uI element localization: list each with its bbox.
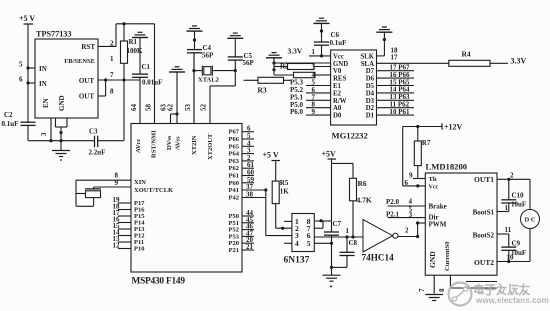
wire GND pin down <box>60 127 62 151</box>
mcu U MSP430F149 body <box>131 124 242 273</box>
svg-text:RST/NMI: RST/NMI <box>151 130 158 158</box>
ground above C4 <box>187 30 203 32</box>
svg-text:FB/SENSE: FB/SENSE <box>64 58 95 65</box>
wire P63 pin2 stub <box>242 160 254 162</box>
wire SLA pin17 to R4 <box>377 62 449 64</box>
wire P5.2 to pin6 <box>306 92 331 94</box>
wire 3.3V output rail <box>98 79 140 81</box>
capacitor C5 56P <box>234 38 236 57</box>
svg-text:MSP430 F149: MSP430 F149 <box>132 277 186 287</box>
wire P5.3 to pin5 <box>306 85 331 87</box>
ground optocoupler <box>323 274 341 276</box>
svg-text:10 P61: 10 P61 <box>390 108 411 116</box>
svg-text:BootS2: BootS2 <box>473 232 495 240</box>
svg-text:LMD18200: LMD18200 <box>426 162 468 172</box>
optocoupler U 6N137 body <box>292 214 314 252</box>
wire P67 pin6 stub <box>242 131 254 133</box>
wire P16 pin18 stub <box>118 209 131 211</box>
wire RST/NMI pin58 <box>154 24 156 124</box>
wire P10 pin12 stub <box>118 248 131 250</box>
svg-text:8: 8 <box>438 288 446 292</box>
svg-text:4: 4 <box>409 198 413 206</box>
wire P6.0 to pin9 <box>306 114 331 116</box>
svg-text:TPS77133: TPS77133 <box>36 30 72 39</box>
svg-text:www.elecfans.com: www.elecfans.com <box>475 296 549 305</box>
svg-text:5: 5 <box>307 239 311 248</box>
svg-text:RES: RES <box>333 76 346 83</box>
capacitor C7 <box>324 231 339 233</box>
wire P52 pin46 stub <box>242 229 254 231</box>
regulator U TPS77133 body <box>35 39 98 118</box>
wire P50 pin44 stub <box>242 215 254 217</box>
ground DVss AVss <box>169 71 185 73</box>
svg-text:+5 V: +5 V <box>263 151 279 160</box>
wire opto pin8 pin7 tie <box>314 220 323 222</box>
svg-text:C10: C10 <box>512 192 525 200</box>
crystal XTAL2 <box>194 70 202 72</box>
svg-text:P2.1: P2.1 <box>386 210 400 218</box>
svg-text:1: 1 <box>110 55 114 63</box>
svg-text:74HC14: 74HC14 <box>362 253 395 263</box>
node +12V <box>403 126 442 128</box>
capacitor C2 <box>21 121 36 123</box>
svg-text:R4: R4 <box>462 50 471 59</box>
wire +5V rail down left side <box>27 24 29 122</box>
svg-text:DVss: DVss <box>166 135 173 150</box>
wire crystal right to C5 <box>212 70 235 72</box>
svg-text:XT2OUT: XT2OUT <box>207 133 214 160</box>
svg-text:SLA: SLA <box>361 61 374 68</box>
svg-text:52: 52 <box>200 104 208 112</box>
svg-text:D6: D6 <box>366 76 375 83</box>
svg-text:XOUT/TCLK: XOUT/TCLK <box>134 187 173 194</box>
svg-text:R/W: R/W <box>333 98 347 105</box>
svg-text:56P: 56P <box>243 59 255 67</box>
wire P62 pin61 stub <box>242 167 254 169</box>
wire P2.1 to Dir pin3 <box>388 217 426 219</box>
svg-text:+5 V: +5 V <box>19 14 35 23</box>
svg-text:1: 1 <box>346 227 350 235</box>
wire P5.0 to pin8 <box>306 107 331 109</box>
ground LMD18200 <box>425 294 443 296</box>
svg-text:64: 64 <box>130 104 138 112</box>
svg-text:38: 38 <box>246 191 254 199</box>
svg-text:C3: C3 <box>89 128 98 136</box>
ground above C5 <box>227 37 243 39</box>
wire BootS1 pin1 <box>497 211 509 213</box>
wire OUT pin8 join <box>98 95 106 97</box>
svg-text:17: 17 <box>391 53 399 61</box>
wire XT2OUT pin52 <box>209 86 211 124</box>
svg-text:9: 9 <box>115 179 119 187</box>
wire opto pin6 output to inverter <box>314 236 363 238</box>
svg-text:AVcc: AVcc <box>135 139 142 153</box>
svg-text:IN: IN <box>39 65 47 73</box>
svg-text:R5: R5 <box>280 179 289 187</box>
wire AVss pin62 <box>176 72 178 124</box>
svg-text:D0: D0 <box>333 113 342 120</box>
svg-text:R3: R3 <box>258 86 267 95</box>
svg-text:6: 6 <box>19 76 23 84</box>
svg-text:D1: D1 <box>366 113 375 120</box>
svg-text:P60: P60 <box>229 180 239 187</box>
watermark chinese characters <box>475 284 529 295</box>
svg-text:6N137: 6N137 <box>284 256 310 266</box>
wire OUT2 pin10 to motor <box>497 261 530 263</box>
svg-text:D3: D3 <box>366 98 375 105</box>
svg-text:P41: P41 <box>229 187 239 194</box>
svg-text:C8: C8 <box>349 239 358 247</box>
wire XIN pin8 <box>76 179 131 181</box>
svg-text:OUT2: OUT2 <box>474 258 494 267</box>
svg-text:P21: P21 <box>229 247 239 254</box>
wire P20 pin20 stub <box>242 242 254 244</box>
svg-text:Brake: Brake <box>429 203 447 211</box>
svg-text:XIN: XIN <box>134 179 146 186</box>
svg-text:P2.0: P2.0 <box>386 198 400 206</box>
resistor R7 thermal pullup <box>417 127 419 142</box>
wire P14 pin16 stub <box>118 222 131 224</box>
resistor R6 4.7K <box>352 163 354 178</box>
svg-text:3: 3 <box>40 132 48 136</box>
wire C7 to ground <box>331 235 333 275</box>
wire C4 to XT2IN <box>193 53 195 124</box>
inverter U 74HC14 <box>363 220 393 253</box>
svg-text:2: 2 <box>405 227 409 235</box>
svg-text:10uF: 10uF <box>511 201 526 209</box>
svg-text:3: 3 <box>409 211 413 219</box>
capacitor C8 <box>346 237 348 252</box>
svg-text:PWM: PWM <box>429 221 447 229</box>
svg-text:6: 6 <box>405 179 409 187</box>
wire LCD data D2 net P62 <box>377 107 415 109</box>
lcd U MG12232 body <box>331 50 377 125</box>
capacitor C9 bootstrap <box>508 234 510 247</box>
wire P53 pin47 stub <box>242 235 254 237</box>
ground top of C1 <box>132 37 148 39</box>
resistor R3 <box>244 79 259 81</box>
capacitor C1 0.01uF <box>139 38 141 75</box>
watermark logo circle <box>449 283 472 306</box>
svg-text:D4: D4 <box>366 90 375 97</box>
svg-text:OUT1: OUT1 <box>474 175 494 184</box>
wire LCD data D1 net P61 <box>377 114 415 116</box>
wire RST to reset rail <box>98 45 116 47</box>
svg-text:58: 58 <box>145 104 153 112</box>
wire Current pin8 sense <box>449 275 451 288</box>
wire P65 pin4 stub <box>242 145 254 147</box>
GND pin tab <box>55 118 57 127</box>
svg-text:D5: D5 <box>366 83 375 90</box>
svg-text:V0: V0 <box>333 68 342 75</box>
wire OUT1 pin2 to motor <box>497 178 530 180</box>
svg-text:7: 7 <box>418 288 426 292</box>
wire P17 pin19 stub <box>118 202 131 204</box>
wire P41 pin37 to optocoupler <box>242 189 266 191</box>
svg-text:P6.0: P6.0 <box>290 108 304 116</box>
wire inverter output to PWM <box>398 236 418 238</box>
svg-text:P65: P65 <box>229 143 240 150</box>
wire IN pin6 stub <box>28 82 35 84</box>
wire opto pin4 stub <box>284 242 292 244</box>
wire XT2IN pin53 <box>193 52 195 123</box>
wire Th pin9 <box>413 178 425 180</box>
wire P60 pin59 stub <box>242 182 254 184</box>
svg-text:D7: D7 <box>366 68 375 75</box>
svg-text:3.3V: 3.3V <box>288 47 303 56</box>
wire P61 pin60 stub <box>242 175 254 177</box>
svg-text:RST: RST <box>81 43 95 51</box>
svg-text:XTAL2: XTAL2 <box>198 77 219 84</box>
svg-text:OUT: OUT <box>79 77 95 85</box>
wire P5.1 to pin7 <box>306 99 331 101</box>
wire LCD data D7 net P67 <box>377 70 415 72</box>
ground above C6 <box>314 22 330 24</box>
wire crystal loop <box>93 187 95 189</box>
resistor R4 backlight <box>449 60 490 66</box>
wire +5V rail to C7 <box>331 159 333 232</box>
wire LCD data D4 net P64 <box>377 92 415 94</box>
svg-text:R1: R1 <box>129 38 138 46</box>
wire XOUT pin9 <box>94 186 131 188</box>
wire P42 pin38 stub <box>242 197 266 199</box>
svg-text:2.2uF: 2.2uF <box>89 149 106 157</box>
svg-text:+5V: +5V <box>322 150 337 159</box>
wire P66 pin5 stub <box>242 138 254 140</box>
svg-text:C7: C7 <box>333 220 342 228</box>
wire SLK pin18 to ground <box>377 55 385 57</box>
wire AVcc pin64 <box>139 80 141 124</box>
wire P21 pin21 stub <box>242 249 254 251</box>
wire P15 pin17 stub <box>118 215 131 217</box>
svg-text:P10: P10 <box>134 246 144 253</box>
svg-text:1K: 1K <box>280 188 290 196</box>
wire LCD data D6 net P66 <box>377 77 415 79</box>
svg-text:Vcc: Vcc <box>333 53 344 60</box>
svg-text:P61: P61 <box>229 173 239 180</box>
svg-text:P67: P67 <box>229 129 240 136</box>
resistor R5 1K <box>275 161 277 182</box>
svg-text:R7: R7 <box>422 139 431 147</box>
svg-text:4.7K: 4.7K <box>357 196 372 205</box>
svg-text:E2: E2 <box>333 90 342 97</box>
svg-text:IN: IN <box>39 80 47 88</box>
svg-text:C1: C1 <box>142 63 151 71</box>
svg-text:C9: C9 <box>512 240 521 248</box>
svg-text:D C: D C <box>524 217 535 224</box>
svg-text:0.1uF: 0.1uF <box>2 120 19 128</box>
svg-text:0.01uF: 0.01uF <box>142 79 162 87</box>
svg-text:1: 1 <box>312 48 316 56</box>
svg-text:1: 1 <box>505 204 509 212</box>
resistor R1 100K pullup <box>123 24 125 41</box>
wire C3 up to 3.3V rail <box>98 140 124 142</box>
svg-text:XT2IN: XT2IN <box>191 135 198 155</box>
capacitor C6 0.1uF <box>321 23 323 42</box>
ground TPS <box>52 150 70 152</box>
svg-text:21: 21 <box>246 243 254 251</box>
wire EN pin3 to ground <box>50 118 52 141</box>
svg-text:SLK: SLK <box>360 53 374 60</box>
capacitor C3 2.2uF <box>94 136 96 148</box>
wire C2 to ground rail <box>27 125 29 140</box>
svg-text:56P: 56P <box>202 52 214 60</box>
svg-text:P66: P66 <box>229 136 240 143</box>
svg-text:A0: A0 <box>333 105 342 112</box>
svg-text:D2: D2 <box>366 105 375 112</box>
svg-text:5: 5 <box>19 61 23 69</box>
svg-text:4: 4 <box>295 239 299 248</box>
ground LCD GND pin2 <box>266 57 282 59</box>
wire P2.0 to Brake pin4 <box>388 205 426 207</box>
svg-text:11: 11 <box>505 226 512 234</box>
wire DVss pin63 <box>170 114 172 124</box>
crystal Y2 32k <box>75 180 77 206</box>
wire P12 pin14 stub <box>118 235 131 237</box>
svg-text:P62: P62 <box>229 165 239 172</box>
wire opto pin5 to ground rail <box>314 242 331 244</box>
svg-text:CurrentS0: CurrentS0 <box>444 242 451 272</box>
capacitor C10 bootstrap <box>508 179 510 200</box>
wire P64 pin3 stub <box>242 153 254 155</box>
wire Vcc pin1 <box>309 55 331 57</box>
svg-text:P64: P64 <box>229 151 240 158</box>
svg-text:R6: R6 <box>358 179 367 188</box>
wire R5 to opto pin2 <box>276 227 292 229</box>
svg-text:Vcc: Vcc <box>429 185 439 191</box>
svg-text:GND: GND <box>58 95 66 111</box>
svg-text:2: 2 <box>510 172 514 180</box>
svg-text:P63: P63 <box>229 158 240 165</box>
svg-text:0.1uF: 0.1uF <box>330 39 347 47</box>
wire opto pin1 stub <box>284 220 292 222</box>
motor M DC <box>529 179 531 209</box>
svg-text:BootS1: BootS1 <box>473 209 495 217</box>
svg-text:MG12232: MG12232 <box>332 131 368 141</box>
svg-text:GND: GND <box>428 251 437 268</box>
svg-text:+12V: +12V <box>444 123 463 132</box>
svg-text:12: 12 <box>113 242 121 250</box>
svg-text:OUT: OUT <box>79 93 95 101</box>
svg-text:62: 62 <box>167 104 175 112</box>
wire +12V to Vcc pin6 <box>402 127 404 186</box>
wire P13 pin15 stub <box>118 228 131 230</box>
wire IN pin5 stub <box>28 67 35 69</box>
wire LCD data D3 net P63 <box>377 99 415 101</box>
resistor to RES pin4 <box>274 74 294 76</box>
svg-text:53: 53 <box>184 104 192 112</box>
wire P11 pin13 stub <box>118 241 131 243</box>
driver U LMD18200 body <box>425 173 497 275</box>
svg-text:10: 10 <box>507 254 515 262</box>
wire LCD data D5 net P65 <box>377 85 415 87</box>
wire branch to R6 <box>332 162 354 164</box>
svg-text:AVss: AVss <box>175 136 182 150</box>
capacitor C4 56P <box>194 31 196 49</box>
svg-text:3.3V: 3.3V <box>511 57 527 66</box>
svg-text:9: 9 <box>312 108 316 116</box>
svg-text:Th: Th <box>429 176 437 183</box>
svg-text:E1: E1 <box>333 83 342 90</box>
svg-text:7: 7 <box>110 71 114 79</box>
svg-text:9: 9 <box>409 172 413 180</box>
svg-text:C6: C6 <box>331 31 340 39</box>
wire BootS2 pin11 <box>497 233 509 235</box>
svg-text:GND: GND <box>333 61 348 68</box>
svg-text:8: 8 <box>110 88 114 96</box>
svg-text:P42: P42 <box>229 195 239 202</box>
svg-text:EN: EN <box>42 98 50 108</box>
wire P51 pin45 stub <box>242 222 254 224</box>
wire ground rail to C3 <box>51 140 95 142</box>
svg-text:C2: C2 <box>4 111 13 119</box>
svg-text:63: 63 <box>160 104 168 112</box>
wire GND pin2 <box>273 58 275 75</box>
wire GND pin7 down <box>433 275 435 293</box>
